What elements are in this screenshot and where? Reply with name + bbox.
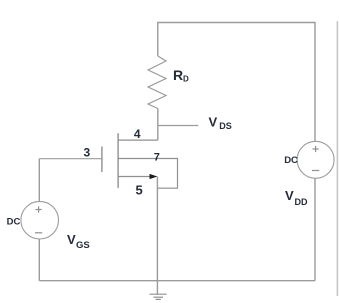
svg-text:3: 3: [84, 145, 91, 159]
svg-text:R: R: [173, 67, 183, 83]
svg-text:DD: DD: [295, 197, 308, 207]
svg-text:7: 7: [154, 151, 160, 163]
svg-text:DC: DC: [284, 155, 298, 166]
svg-text:D: D: [183, 74, 189, 83]
svg-text:V: V: [209, 114, 218, 129]
svg-text:V: V: [285, 188, 294, 203]
svg-text:4: 4: [134, 127, 141, 141]
svg-text:5: 5: [136, 182, 143, 197]
svg-text:GS: GS: [76, 240, 90, 251]
svg-text:DS: DS: [219, 121, 232, 131]
svg-text:V: V: [67, 232, 76, 247]
svg-text:DC: DC: [7, 217, 21, 228]
